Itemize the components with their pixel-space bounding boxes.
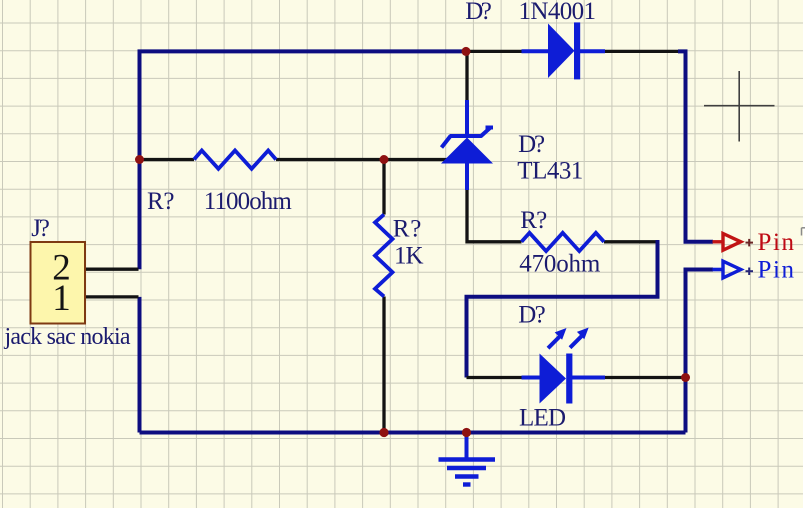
svg-text:470ohm: 470ohm <box>519 251 601 278</box>
wire: diode cathode to right corner (black) <box>604 50 681 53</box>
resistor R? 470ohm <box>522 233 605 251</box>
wire: left rail and top rail (navy) <box>140 51 468 269</box>
resistor R? 1K <box>375 215 393 297</box>
svg-text:D?: D? <box>518 302 546 329</box>
cursor crosshair <box>704 71 775 142</box>
svg-text:J?: J? <box>31 215 50 242</box>
svg-text:R?: R? <box>520 207 547 234</box>
connector J? jack sac nokia <box>31 242 86 324</box>
svg-text:R?: R? <box>393 215 422 242</box>
junction node: R1100 / R1K <box>380 155 389 164</box>
svg-text:1K: 1K <box>394 242 424 269</box>
wire: to LED anode (black) <box>467 376 524 379</box>
svg-text:1N4001: 1N4001 <box>519 0 597 25</box>
svg-text:1100ohm: 1100ohm <box>204 188 293 215</box>
svg-text:Pin: Pin <box>758 229 795 256</box>
svg-text:1: 1 <box>52 278 71 319</box>
junction node: ground / bottom rail <box>462 428 471 437</box>
svg-text:Pin: Pin <box>758 257 795 284</box>
junction node: left rail / R1100 <box>135 155 144 164</box>
partial sheet mark at right edge <box>802 228 805 236</box>
wire: blue pin rail down to bottom (navy) <box>686 270 714 433</box>
wire: junction to R 1100ohm (black) <box>140 158 195 161</box>
svg-text:D?: D? <box>518 131 545 158</box>
svg-text:LED: LED <box>519 404 566 431</box>
wire: R 1K bottom lead (black) <box>382 297 385 433</box>
junction node: LED cathode / right rail <box>681 373 690 382</box>
svg-text:R?: R? <box>147 188 175 215</box>
svg-text:TL431: TL431 <box>517 158 583 185</box>
ground <box>439 434 496 485</box>
wire: LED cathode to right rail (black) <box>604 376 684 379</box>
svg-text:jack sac nokia: jack sac nokia <box>4 324 131 350</box>
wire: TL431 cathode up to top rail (black) <box>465 51 468 103</box>
wire: right rail down to red pin (navy) <box>678 51 713 241</box>
wire: bottom rail (navy) <box>140 431 686 435</box>
diode D? 1N4001 <box>522 22 606 79</box>
wire: connector pin2 to rail (black) <box>84 268 139 271</box>
wire: TL431 anode down and right to R 470ohm (black) <box>467 189 522 242</box>
output port + Pin (blue) <box>713 257 795 284</box>
wire: top rail black segment to diode <box>467 50 523 53</box>
resistor R? 1100ohm <box>194 151 276 169</box>
wire: left bottom rail up to pin1 (navy) <box>138 297 142 433</box>
svg-text:D?: D? <box>465 0 492 25</box>
wire: R 1100ohm to TL431 ref (black) <box>276 158 450 161</box>
output port + Pin (red) <box>713 229 795 256</box>
junction node: top rail / TL431 <box>462 47 471 56</box>
wire: connector pin1 to rail (black) <box>84 295 139 298</box>
TL431 D? <box>441 100 493 190</box>
wire: feedback loop down-left-down (navy) <box>467 240 658 378</box>
wire: R 1K top lead (black) <box>382 160 385 215</box>
wire: R 470ohm to right corner (black) <box>604 240 658 243</box>
junction node: R1K / bottom rail <box>379 428 388 437</box>
LED D? <box>522 328 606 404</box>
